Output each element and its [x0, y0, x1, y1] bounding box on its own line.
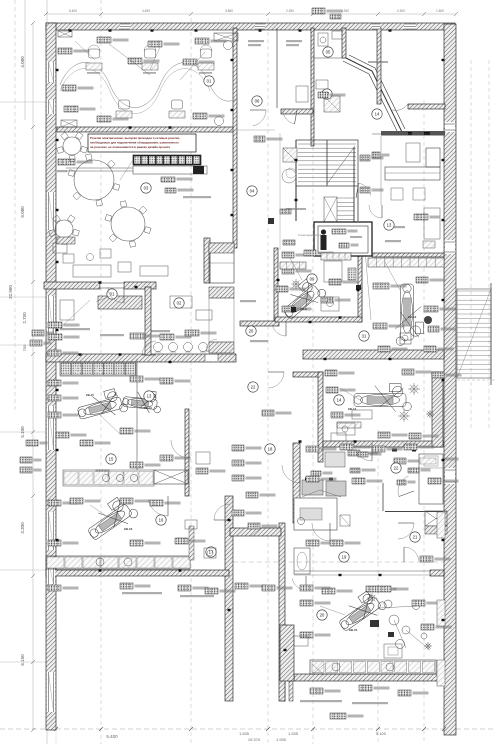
svg-text:14: 14 — [375, 112, 380, 117]
svg-text:КВ-13: КВ-13 — [144, 406, 152, 410]
svg-text:Стена перенести 4.4: Стена перенести 4.4 — [298, 234, 322, 237]
svg-text:КВ-16: КВ-16 — [124, 527, 133, 531]
svg-text:КВ-12: КВ-12 — [408, 315, 417, 319]
svg-text:КВ-9: КВ-9 — [300, 307, 307, 311]
svg-text:6.150: 6.150 — [20, 654, 25, 666]
svg-text:1.930: 1.930 — [276, 737, 287, 742]
svg-text:3.300: 3.300 — [20, 522, 25, 534]
svg-text:КВ-15: КВ-15 — [86, 393, 94, 397]
svg-text:5.100: 5.100 — [20, 426, 25, 438]
svg-text:22: 22 — [251, 385, 256, 390]
svg-text:09: 09 — [310, 277, 315, 282]
svg-text:4.490: 4.490 — [142, 9, 150, 13]
svg-text:Розетки электрические, выпуски: Розетки электрические, выпуски проводов … — [90, 136, 180, 140]
svg-text:5.100: 5.100 — [376, 731, 387, 736]
svg-text:03: 03 — [144, 186, 149, 191]
svg-text:1.535: 1.535 — [239, 731, 250, 736]
svg-text:9.080: 9.080 — [20, 206, 25, 218]
svg-text:31: 31 — [362, 334, 367, 339]
svg-text:на розетках, не показываются в: на розетках, не показываются в рамках ди… — [90, 145, 170, 149]
svg-text:05: 05 — [326, 50, 331, 55]
svg-text:необходимые для подключения: необходимые для подключения оборудования… — [90, 141, 179, 145]
svg-text:32.960: 32.960 — [8, 285, 13, 299]
svg-text:2.250: 2.250 — [286, 9, 294, 13]
svg-text:5.400: 5.400 — [106, 734, 118, 739]
svg-text:14: 14 — [337, 398, 342, 403]
svg-text:01: 01 — [207, 79, 212, 84]
svg-text:20: 20 — [320, 613, 325, 618]
svg-text:2.750: 2.750 — [22, 312, 27, 324]
svg-text:1.535: 1.535 — [288, 731, 299, 736]
svg-text:18: 18 — [268, 447, 273, 452]
svg-text:19: 19 — [342, 555, 347, 560]
svg-text:21: 21 — [413, 535, 418, 540]
svg-text:13: 13 — [147, 394, 152, 399]
svg-text:15: 15 — [109, 457, 114, 462]
svg-text:750: 750 — [22, 344, 27, 351]
svg-text:13: 13 — [387, 223, 392, 228]
svg-text:КВ-10: КВ-10 — [349, 628, 358, 632]
svg-text:02: 02 — [177, 301, 182, 306]
svg-text:2.300: 2.300 — [397, 9, 405, 13]
svg-text:16: 16 — [159, 518, 164, 523]
svg-text:22: 22 — [394, 466, 399, 471]
svg-text:4.080: 4.080 — [20, 56, 25, 68]
svg-text:06: 06 — [255, 99, 260, 104]
svg-text:04: 04 — [250, 189, 255, 194]
svg-text:15.370: 15.370 — [248, 737, 261, 742]
svg-text:20: 20 — [249, 329, 254, 334]
svg-text:5.400: 5.400 — [69, 9, 77, 13]
svg-text:КВ-14: КВ-14 — [348, 407, 357, 411]
svg-text:3.850: 3.850 — [225, 9, 233, 13]
svg-text:1.600: 1.600 — [436, 9, 444, 13]
